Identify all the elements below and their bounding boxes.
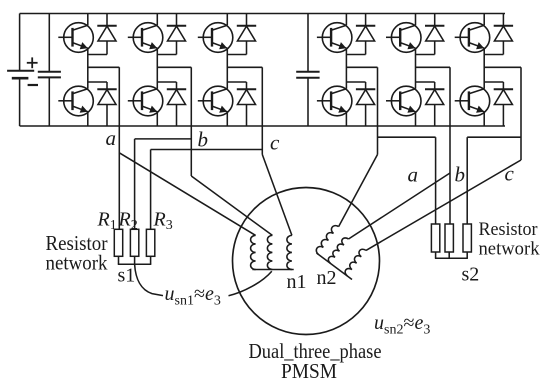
svg-text:s1: s1 (118, 265, 136, 287)
svg-text:b: b (198, 127, 209, 151)
svg-text:b: b (455, 162, 466, 186)
svg-text:a: a (408, 163, 419, 187)
svg-text:network: network (46, 250, 108, 274)
svg-text:s2: s2 (462, 264, 480, 286)
svg-text:network: network (479, 239, 540, 260)
svg-text:c: c (505, 161, 515, 185)
svg-text:Resistor: Resistor (479, 219, 539, 240)
svg-text:a: a (106, 126, 117, 150)
svg-text:PMSM: PMSM (281, 359, 337, 383)
svg-text:n1: n1 (287, 271, 307, 293)
svg-text:c: c (270, 131, 280, 155)
svg-text:n2: n2 (317, 267, 337, 289)
